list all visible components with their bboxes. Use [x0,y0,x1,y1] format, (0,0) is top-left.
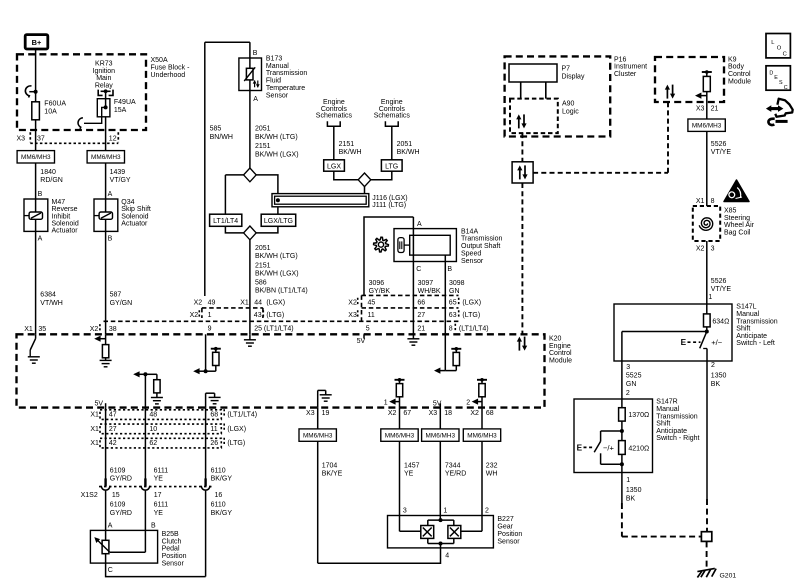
svg-text:MM6/MH3: MM6/MH3 [21,154,51,161]
svg-text:(LGX): (LGX) [266,300,285,307]
svg-text:S147L: S147L [736,304,756,311]
display P7 [509,64,585,82]
pull-up resistor + arrow (pin 48 clutch signal) [133,371,163,407]
svg-text:GY/RD: GY/RD [110,510,132,517]
svg-text:P16: P16 [614,56,627,63]
svg-text:Actuator: Actuator [52,228,79,235]
svg-text:6109: 6109 [110,467,126,474]
legend icon LOC [766,34,790,58]
svg-text:X2: X2 [194,300,203,307]
svg-text:X2: X2 [388,410,397,417]
svg-text:J116 (LGX): J116 (LGX) [372,195,407,202]
node LGX/LTG [261,214,296,226]
svg-text:6111: 6111 [154,467,169,474]
connector pins X3 21 (BCM) [696,106,719,113]
coil X85 Steering Wheel Air Bag Coil [693,206,755,241]
connector row pins X3 11 / 27 / 63 (LTG) [348,310,480,319]
svg-text:B: B [447,266,452,273]
svg-text:2151: 2151 [255,143,271,150]
svg-text:16: 16 [215,492,223,499]
svg-text:37: 37 [37,135,45,142]
svg-text:5526: 5526 [711,278,727,285]
svg-text:1: 1 [384,399,388,406]
svg-text:F49UA: F49UA [114,99,136,106]
svg-text:Transmission: Transmission [656,413,697,420]
wire 2051 BK/WH (LTG) [392,126,420,160]
svg-text:Steering: Steering [724,215,750,222]
fuse block X50A box [17,54,146,130]
svg-text:Sensor: Sensor [497,538,520,545]
wire 3098 GN (sensor B) [445,262,464,335]
svg-text:E: E [577,443,583,452]
svg-text:S147R: S147R [656,399,677,406]
wire 6109 GY/RD (lower) [106,491,132,531]
svg-text:S: S [779,80,783,86]
svg-text:Shift: Shift [656,421,670,428]
svg-text:Position: Position [162,553,187,560]
svg-text:Control: Control [728,71,751,78]
svg-text:C: C [416,266,421,273]
svg-text:YE: YE [404,471,414,478]
label K20 Engine Control Module [549,336,572,365]
svg-text:12: 12 [109,135,117,142]
svg-text:B227: B227 [497,516,513,523]
svg-text:Sensor: Sensor [266,92,289,99]
wire - B173 pin A to junction diamond [250,91,299,169]
svg-text:Relay: Relay [95,83,113,90]
wire 3097 WH/BK (sensor C) [413,262,440,335]
svg-text:X50A: X50A [151,57,168,64]
svg-text:Underhood: Underhood [151,72,186,79]
svg-text:GN: GN [626,381,637,388]
svg-text:LT1/LT4: LT1/LT4 [213,218,238,225]
svg-text:Logic: Logic [562,108,579,115]
svg-text:Sensor: Sensor [461,258,484,265]
switch S147L Manual Transmission Shift Anticipate Switch - Left [614,304,778,361]
connector row pins 9 / 25 (LT1/LT4) [208,326,294,333]
inline connector (splice) near G201 [701,532,711,542]
svg-text:5V: 5V [433,401,442,408]
svg-text:43: 43 [254,312,262,319]
ground - low reference (pin 68/11/26) [206,393,221,407]
svg-text:(LT1/LT4): (LT1/LT4) [459,326,489,333]
svg-text:1: 1 [626,477,630,484]
svg-text:(LTG): (LTG) [227,440,245,447]
wire - F49UA to connector X3 pin 12 [105,117,107,151]
wire - LGX to diamond junction [334,171,358,180]
logic module A90 [510,99,579,134]
svg-text:Reverse: Reverse [52,206,78,213]
svg-text:BK/WH (LTG): BK/WH (LTG) [255,253,298,260]
svg-text:KR73: KR73 [95,61,113,68]
svg-text:VT/GY: VT/GY [110,177,131,184]
svg-text:LGX/LTG: LGX/LTG [264,218,293,225]
svg-text:Manual: Manual [736,311,759,318]
svg-text:BK/WH: BK/WH [339,149,362,156]
svg-text:B14A: B14A [461,228,478,235]
switch - reverse inhibit sense (pin 35) to ground [28,334,40,363]
svg-text:1439: 1439 [110,169,126,176]
svg-text:Solenoid: Solenoid [52,221,79,228]
svg-text:Inhibit: Inhibit [52,213,71,220]
svg-text:4: 4 [445,553,449,560]
svg-text:18: 18 [444,410,452,417]
svg-text:J111 (LTG): J111 (LTG) [372,202,406,209]
wire 6111 YE [145,408,168,485]
wire 6110 BK/GY (lower) [206,491,233,577]
wire - diamond to splice bus [364,187,366,194]
svg-text:−/+: −/+ [603,443,615,452]
svg-text:B25B: B25B [162,531,179,538]
svg-text:Manual: Manual [266,63,289,70]
svg-text:5: 5 [366,326,370,333]
svg-text:MM6/MH3: MM6/MH3 [91,154,121,161]
serial data wire - A90 to junction box [521,133,523,162]
svg-text:B: B [108,235,113,242]
connector row pins 5 / 21 / 8 (LT1/LT4) [366,324,489,333]
svg-text:2: 2 [711,362,715,369]
connector pin X2 67 [388,410,411,417]
wire 587 GY/GN [106,231,133,334]
svg-text:6111: 6111 [154,502,169,509]
svg-text:1: 1 [208,312,212,319]
svg-text:10: 10 [149,426,157,433]
svg-text:BK/GY: BK/GY [211,510,233,517]
off-page reference Engine Controls Schematics (LGX) [316,99,353,126]
svg-text:B: B [253,50,258,57]
svg-text:25 (LT1/LT4): 25 (LT1/LT4) [254,326,293,333]
svg-text:Solenoid: Solenoid [121,213,148,220]
wire 585 BN/WH [205,42,250,296]
svg-text:4210Ω: 4210Ω [628,445,649,452]
svg-text:A90: A90 [562,100,575,107]
svg-text:X3: X3 [696,106,705,113]
svg-text:Gear: Gear [497,524,513,531]
svg-text:1370Ω: 1370Ω [628,412,649,419]
svg-text:3: 3 [626,364,630,371]
wire 3096 GY/BK (sensor A 5V feed) [364,217,413,296]
wire 1457 YE [400,441,420,515]
svg-text:BK: BK [626,495,636,502]
connector row dashed separators (right group) [362,295,459,321]
svg-text:5V: 5V [357,338,366,345]
relay KR73 contact hook (left) [25,86,37,98]
svg-text:49: 49 [208,300,216,307]
svg-text:67: 67 [403,410,411,417]
svg-text:GY/RD: GY/RD [110,476,132,483]
svg-text:E: E [774,75,778,81]
svg-text:Transmission: Transmission [736,318,777,325]
actuator Q34 Skip Shift Solenoid Actuator [94,199,151,232]
svg-text:A: A [108,522,113,529]
svg-text:2: 2 [626,390,630,397]
svg-text:27: 27 [109,426,117,433]
svg-text:Speed: Speed [461,251,481,258]
relay KR73 contact hook (lower) [78,107,106,128]
svg-text:B173: B173 [266,55,282,62]
svg-text:6110: 6110 [211,467,226,474]
connector row long dashed separator [104,320,459,322]
svg-text:B+: B+ [32,38,42,47]
actuator M47 Reverse Inhibit Solenoid Actuator [24,199,79,235]
svg-text:5526: 5526 [711,141,727,148]
svg-text:21: 21 [417,326,425,333]
serial data wire - junction box to K20 [521,183,523,334]
junction diamond (variant merge) [244,226,257,240]
svg-text:3097: 3097 [418,280,434,287]
svg-text:Instrument: Instrument [614,64,647,71]
svg-text:Bag Coil: Bag Coil [724,229,751,236]
svg-text:MM6/MH3: MM6/MH3 [692,123,722,130]
svg-text:585: 585 [210,126,222,133]
svg-text:X85: X85 [724,208,737,215]
svg-text:634Ω: 634Ω [712,318,729,325]
svg-text:2: 2 [485,507,489,514]
wire 1439 VT/GY [106,163,131,199]
svg-text:X1: X1 [90,426,99,433]
svg-text:11: 11 [368,312,375,319]
svg-text:Control: Control [549,350,572,357]
svg-text:X3: X3 [17,135,26,142]
connector X3 pins 37 / 12 [17,132,119,143]
wire 1350 BK (from S147R pin 1) [622,473,642,504]
svg-text:Shift: Shift [736,326,750,333]
svg-text:Engine: Engine [549,343,571,350]
svg-text:Module: Module [549,358,572,365]
svg-text:6384: 6384 [40,292,56,299]
svg-text:3096: 3096 [369,280,385,287]
svg-text:8: 8 [711,198,715,205]
connector pin X3 19 [306,410,329,417]
wire 7344 YE/RD [440,441,466,520]
wire 5526 VT/YE [707,131,732,206]
svg-text:X2: X2 [470,410,479,417]
svg-text:Schematics: Schematics [374,113,411,120]
inline connector MM6/MH3 (wire 1439) [87,151,124,163]
svg-text:+/−: +/− [711,338,723,347]
svg-text:Temperature: Temperature [266,85,305,92]
svg-text:WH: WH [486,471,498,478]
wire - pin 19 to MM6/MH3 [317,408,319,429]
svg-text:232: 232 [486,462,498,469]
svg-text:BN/WH: BN/WH [210,134,233,141]
svg-text:42: 42 [109,440,117,447]
svg-text:C: C [108,567,113,574]
svg-text:G201: G201 [720,572,737,579]
svg-text:X3: X3 [429,410,438,417]
svg-text:3: 3 [711,246,715,253]
svg-text:Clutch: Clutch [162,538,182,545]
svg-text:E: E [681,338,687,347]
wire - F60UA to connector X3 pin 37 [35,120,37,151]
svg-text:19: 19 [322,410,330,417]
pull-up resistor to supply (pin 9/49/1 temp signal) [193,334,221,374]
svg-text:X1S2: X1S2 [81,492,98,499]
wire - P7 to A90 (right) [545,82,547,99]
svg-text:Anticipate: Anticipate [656,428,687,435]
svg-text:2151: 2151 [255,262,271,269]
svg-text:1: 1 [443,507,447,514]
svg-text:Position: Position [497,531,522,538]
svg-text:Manual: Manual [656,406,679,413]
svg-text:C: C [783,51,787,57]
svg-text:Transmission: Transmission [266,70,307,77]
supply 5V (pin X3 18) [433,401,442,408]
label K9 Body Control Module [728,56,751,85]
label KR73 Ignition Main Relay [93,61,116,90]
svg-text:Wheel Air: Wheel Air [724,222,755,229]
inline connector MM6/MH3 (wire 1457) [381,429,418,441]
connector row pins X2 1 / 43 (LTG) [190,310,285,319]
svg-text:65: 65 [449,300,457,307]
svg-text:X1: X1 [240,300,249,307]
svg-text:O: O [777,46,782,52]
svg-text:MM6/MH3: MM6/MH3 [303,432,333,439]
svg-text:2051: 2051 [255,126,271,133]
wire - pin 67 to MM6/MH3 [399,408,401,429]
svg-text:YE: YE [154,510,164,517]
svg-text:45: 45 [368,300,376,307]
svg-text:2051: 2051 [397,141,413,148]
arrow + resistor to ground (pin 38) [94,334,111,367]
label X50A Fuse Block - Underhood [151,57,191,79]
svg-text:11: 11 [210,426,217,433]
svg-text:21: 21 [711,106,719,113]
svg-text:Actuator: Actuator [121,221,148,228]
connector pin X3 18 [429,410,452,417]
svg-text:Skip Shift: Skip Shift [121,206,151,213]
svg-text:38: 38 [109,326,117,333]
wire 6111 YE (lower) [145,491,168,552]
ground - gear position sensor return (pin X3 19) [318,390,332,407]
svg-text:2: 2 [466,399,470,406]
wire 6109 GY/RD [106,408,132,485]
svg-text:Fuse Block -: Fuse Block - [151,65,191,72]
svg-text:9: 9 [208,326,212,333]
serial data junction box with arrows [512,162,533,183]
wire 1704 BK/YE [318,441,343,563]
svg-text:Switch - Left: Switch - Left [736,340,775,347]
svg-text:M47: M47 [52,199,66,206]
svg-text:1350: 1350 [711,373,727,380]
svg-text:15A: 15A [114,107,127,114]
svg-text:68: 68 [486,410,494,417]
thermistor B173 Manual Transmission Fluid Temperature Sensor [239,55,307,99]
svg-text:LGX: LGX [327,163,341,170]
svg-text:Q34: Q34 [121,199,134,206]
svg-text:26: 26 [210,440,218,447]
relay KR73 coil symbol [98,89,113,98]
connector pins X1 8 (airbag coil) [696,198,715,205]
inline connector MM6/MH3 (wire 7344) [422,429,459,441]
svg-text:66: 66 [417,300,425,307]
svg-text:Transmission: Transmission [461,236,502,243]
svg-text:BK: BK [711,381,721,388]
fuse F60UA 10A [32,100,67,120]
svg-text:X3: X3 [348,312,357,319]
svg-text:Display: Display [562,73,585,80]
wire - B+ to fuse F60UA [35,49,37,102]
wire - B227 pin 4 to 1704 BK/YE [318,548,450,563]
wire 2051/2151/586 to ECM pins 44/43/25 [250,240,308,334]
svg-text:586: 586 [255,280,267,287]
svg-text:X2: X2 [696,246,705,253]
wire - B173 pin B [250,42,258,58]
connector row X1 27 / 10 / 11 (LGX) [90,424,246,434]
sensor B227 Gear Position Sensor [388,507,523,548]
splice bus J116 (LGX) / J111 (LTG) [272,194,408,209]
wire - diamond to LGX/LTG box via splice J116/J111 [256,175,278,214]
svg-text:GY/GN: GY/GN [110,300,133,307]
wire - LGX/LTG box to merge diamond [256,226,278,233]
svg-text:47: 47 [109,412,117,419]
svg-text:A: A [108,191,113,198]
svg-text:Body: Body [728,64,744,71]
legend icon DESC [766,66,790,91]
svg-text:BK/GY: BK/GY [211,476,233,483]
svg-text:X1: X1 [90,440,99,447]
svg-text:Switch - Right: Switch - Right [656,435,699,442]
gear icon [374,237,389,252]
svg-text:2151: 2151 [339,141,355,148]
svg-text:3098: 3098 [449,280,465,287]
pull-up resistor to supply inside K9 [695,70,712,119]
svg-text:B: B [151,522,156,529]
svg-text:Anticipate: Anticipate [736,333,767,340]
wire 2151 BK/WH (LGX) [334,126,362,160]
svg-text:LTG: LTG [385,163,398,170]
svg-text:Module: Module [728,78,751,85]
ground - temp sensor return (pin 44/43/25) [244,334,256,346]
connector row pins X2 45 / 66 / 65 (LGX) [348,298,481,307]
svg-text:WH/BK: WH/BK [418,288,441,295]
svg-text:48: 48 [149,412,157,419]
svg-text:Fluid: Fluid [266,78,281,85]
svg-text:15: 15 [112,492,120,499]
svg-text:F60UA: F60UA [44,100,66,107]
wire 1350 BK (left side of S147L) [707,361,726,499]
svg-text:BK/WH (LGX): BK/WH (LGX) [255,270,299,277]
sensor B25B Clutch Pedal Position Sensor [90,530,186,567]
svg-text:5525: 5525 [626,373,642,380]
svg-text:6109: 6109 [110,502,126,509]
svg-text:BK/BN (LT1/LT4): BK/BN (LT1/LT4) [255,288,308,295]
svg-text:MM6/MH3: MM6/MH3 [385,432,415,439]
svg-text:RD/GN: RD/GN [40,177,63,184]
svg-text:(LTG): (LTG) [266,312,284,319]
svg-text:7344: 7344 [445,462,461,469]
wire 1350 BK dashed to splice [622,503,701,537]
svg-text:VT/YE: VT/YE [711,286,732,293]
svg-text:Main: Main [96,75,111,82]
label P16 Instrument Cluster [614,56,647,78]
svg-text:GN: GN [449,288,460,295]
svg-text:X3: X3 [306,410,315,417]
wire 6110 BK/GY [206,408,233,485]
battery feed B+ terminal [25,35,48,49]
svg-text:10A: 10A [44,108,57,115]
wire - pin 18 to MM6/MH3 [439,408,441,429]
svg-text:1840: 1840 [40,169,56,176]
connector row dashed separators (left group) [202,308,263,318]
inline connector MM6/MH3 (wire 232) [463,429,500,441]
svg-text:27: 27 [417,312,425,319]
supply 5V (pin 5) [357,334,366,345]
module K9 Body Control Module box [655,57,724,102]
wire 1840 RD/GN [36,163,63,199]
wire - LTG to diamond junction [371,171,392,180]
svg-text:X2: X2 [90,326,99,333]
